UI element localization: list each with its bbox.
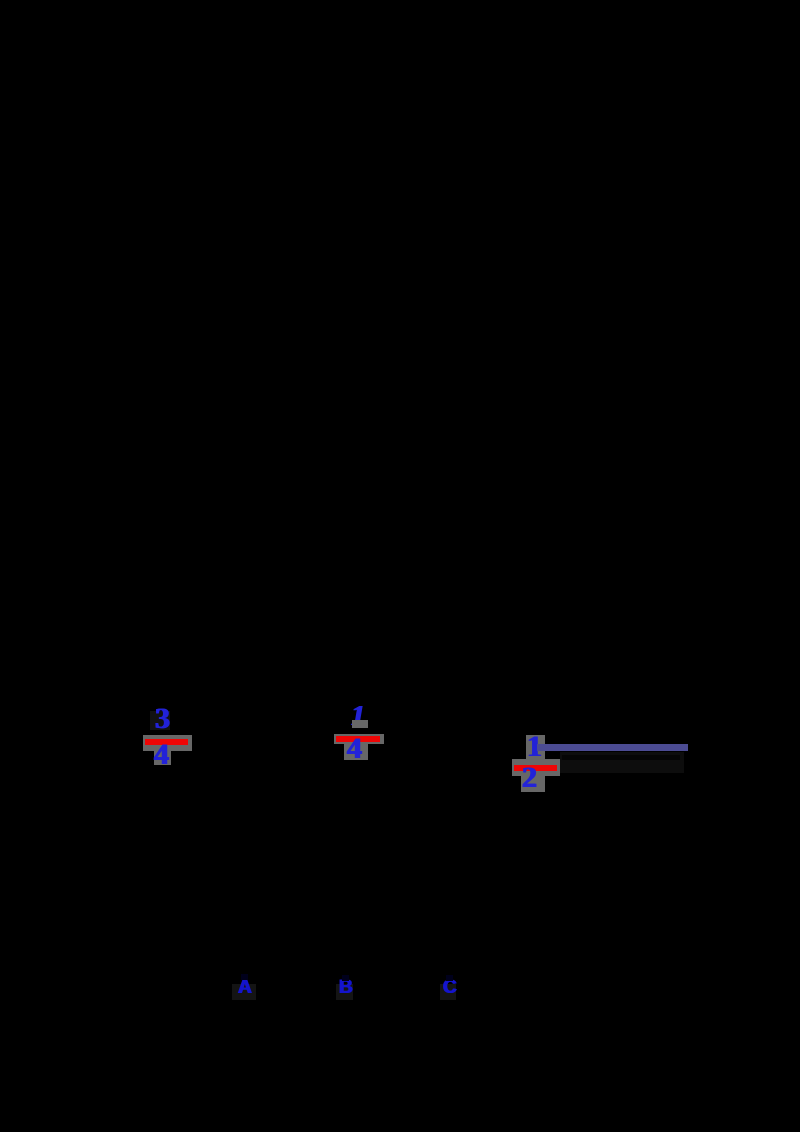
fraction F2 bar highlight band (334, 734, 384, 744)
fraction F3 red fraction bar (514, 765, 557, 771)
fraction F1 numerator digit 3 (155, 704, 170, 734)
dark highlighted answer text band (560, 752, 684, 773)
faint smudge above B (342, 975, 349, 981)
faint smudge above A (241, 974, 248, 980)
faint answer text row inside dark band (562, 755, 680, 760)
fraction F3 denominator highlight column (521, 776, 545, 792)
faint smudge above C (446, 975, 453, 981)
option B highlight patch (336, 984, 353, 1000)
fraction F1 denominator digit 4 (154, 740, 169, 770)
answer drag line (navy) (537, 744, 688, 751)
option A highlight patch (232, 984, 256, 1000)
fraction F2 denominator digit 4 (347, 734, 362, 764)
fraction F3 numerator digit 1 (527, 732, 542, 762)
fraction F1 denominator highlight column (154, 751, 171, 765)
fraction F2 numerator digit 1 (351, 703, 365, 731)
fraction F3 denominator digit 2 (522, 763, 537, 793)
option A letter (238, 978, 252, 997)
fraction F1 bar highlight band (143, 735, 192, 751)
fraction F2 denominator highlight column (344, 742, 368, 760)
option C letter (443, 978, 457, 997)
fraction F2 red fraction bar (336, 736, 380, 742)
fraction F1 numerator highlight patch (150, 711, 170, 730)
fraction F3 numerator highlight column (526, 735, 545, 759)
option B letter (339, 978, 353, 997)
fraction F1 red fraction bar (145, 739, 188, 745)
option C highlight patch (440, 984, 456, 1000)
fraction F3 bar highlight band (512, 759, 560, 776)
fraction F2 numerator highlight patch (352, 720, 368, 728)
